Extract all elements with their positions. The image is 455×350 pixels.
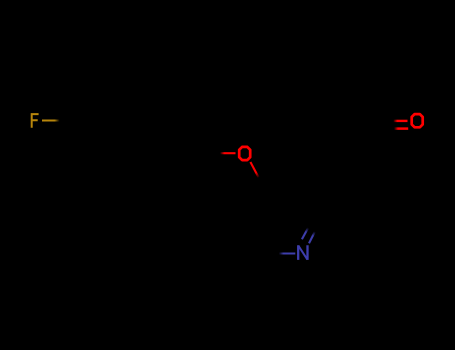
atom label O (aldehyde oxygen) [412,114,423,127]
bond C=O main line (oxygen half, red, horizontal) [393,120,407,122]
bond N=C main line (nitrogen half, blue, diagonal up-right) [309,232,315,244]
bond C-N (nitrogen half, blue, horizontal) [279,252,296,254]
atom label O (ether oxygen) [239,147,250,160]
atom label F (fluorine) [31,113,39,128]
bond N=C inner double-bond line (nitrogen half, blue) [302,228,308,240]
atom label N (pyridine nitrogen) [298,245,307,260]
bond CH2-O (oxygen half, red, horizontal) [220,152,236,154]
bond F-C (fluorine half, gold) [42,119,60,121]
bond O-C(ring) (oxygen half, red, diagonal down-right) [250,162,258,178]
bond C=O inner double-bond line (oxygen half, red) [394,127,408,130]
